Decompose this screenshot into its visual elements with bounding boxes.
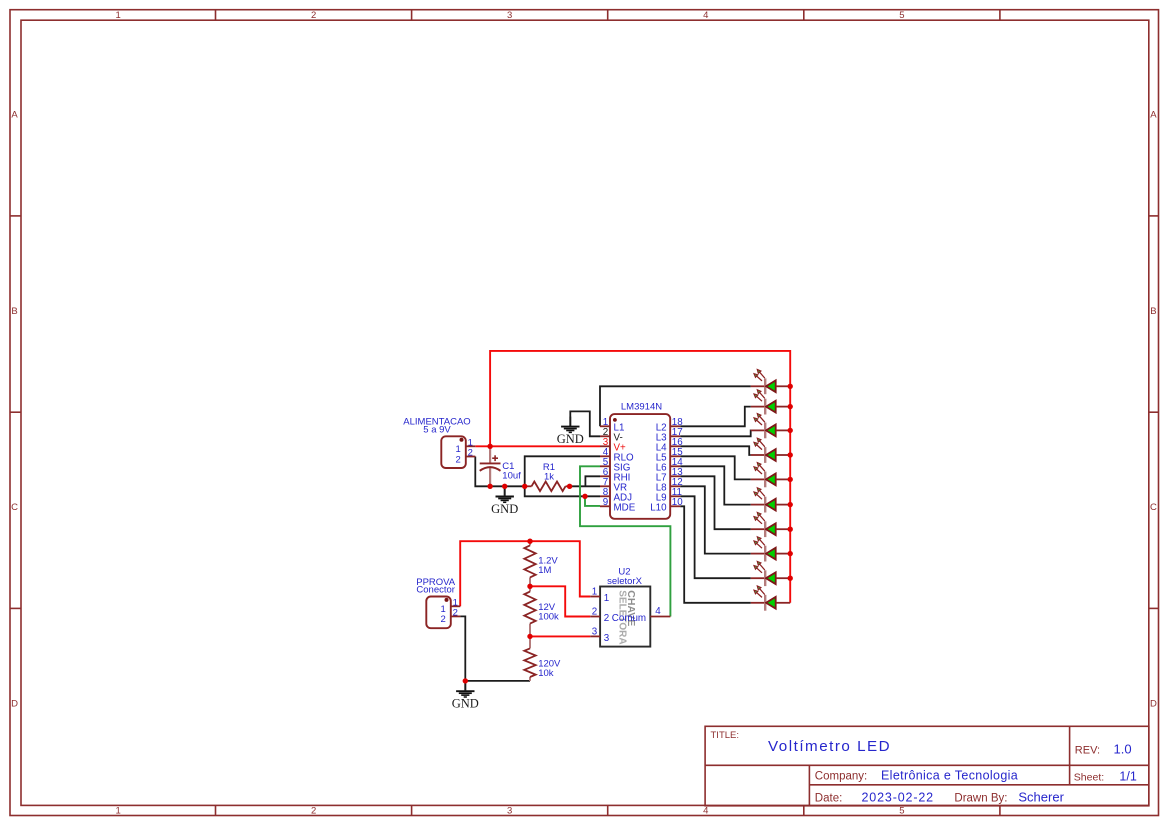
wire L3 pin17 to LED3 (680, 430, 751, 436)
IC U1 pin 5 SIG (600, 457, 630, 473)
svg-text:5 a 9V: 5 a 9V (423, 425, 451, 436)
svg-text:LM3914N: LM3914N (621, 402, 662, 413)
LED5 (751, 463, 790, 488)
IC U1 pin 6 RHI (600, 467, 630, 483)
title block frame (705, 726, 1149, 806)
svg-text:100k: 100k (538, 611, 559, 622)
svg-text:MDE: MDE (614, 503, 636, 514)
IC U1 pin 9 MDE (600, 497, 636, 513)
IC U1 pin 7 VR (600, 477, 627, 493)
junction (463, 678, 468, 683)
svg-text:Comum: Comum (612, 613, 646, 624)
wire V+ riser and top rail to LED bus (490, 351, 790, 603)
svg-text:4: 4 (655, 606, 661, 617)
svg-text:4: 4 (703, 10, 708, 21)
resistor R1 1k (525, 462, 570, 491)
capacitor C1 10uf (480, 446, 521, 486)
svg-text:1: 1 (592, 587, 597, 598)
wire L7 pin13 to LED7 (680, 476, 751, 529)
svg-text:GND: GND (557, 432, 584, 446)
svg-text:1k: 1k (544, 472, 554, 483)
junction (788, 502, 793, 507)
IC U1 LM3914N body (610, 402, 670, 519)
IC U1 pin 1 L1 (600, 417, 624, 433)
svg-text:4: 4 (703, 806, 708, 817)
svg-text:Conector: Conector (416, 585, 455, 596)
wire L5 pin15 to LED5 (680, 456, 751, 479)
svg-text:2: 2 (604, 613, 609, 624)
junction (788, 576, 793, 581)
svg-text:3: 3 (592, 627, 598, 638)
IC U2 pin 2 (590, 607, 609, 624)
wire GND stem from C1 rail (504, 486, 506, 496)
junction (487, 444, 492, 449)
ground GND near IC V- (557, 417, 584, 446)
svg-text:2: 2 (453, 608, 458, 619)
wire V- to GND (570, 411, 600, 436)
svg-text:Eletrônica e Tecnologia: Eletrônica e Tecnologia (881, 768, 1018, 782)
LED8 (751, 537, 790, 562)
junction (487, 484, 492, 489)
IC U1 pin 12 L8 (656, 477, 683, 493)
wire GND net to VR segment (570, 485, 600, 487)
svg-text:10: 10 (672, 497, 683, 508)
svg-text:1.0: 1.0 (1114, 742, 1132, 757)
svg-text:2: 2 (311, 806, 316, 817)
svg-text:3: 3 (507, 806, 512, 817)
IC U1 pin 17 L3 (656, 427, 683, 443)
wire RLO to ADJ loop (525, 456, 600, 496)
junction (788, 404, 793, 409)
svg-text:C: C (1150, 502, 1157, 513)
svg-text:seletorX: seletorX (607, 576, 643, 587)
svg-text:Scherer: Scherer (1018, 789, 1064, 804)
wire L4 pin16 to LED4 (680, 446, 751, 455)
svg-text:GND: GND (491, 502, 518, 516)
svg-text:1: 1 (604, 593, 609, 604)
svg-text:1: 1 (116, 10, 121, 21)
svg-text:GND: GND (452, 697, 479, 711)
IC U1 pin 3 V+ (600, 437, 626, 453)
ground GND near PPROVA (452, 681, 479, 710)
svg-text:1: 1 (116, 806, 121, 817)
svg-text:B: B (11, 306, 17, 317)
svg-text:REV:: REV: (1075, 745, 1100, 757)
IC U2 pin 4 Comum (612, 606, 671, 624)
svg-text:3: 3 (507, 10, 512, 21)
wire divider top red (460, 541, 590, 606)
svg-text:10k: 10k (538, 668, 554, 679)
resistor R4 10k (120V) (524, 636, 561, 681)
wire RHI jog (585, 476, 600, 486)
svg-text:B: B (1150, 306, 1156, 317)
LED6 (751, 488, 790, 513)
svg-text:TITLE:: TITLE: (711, 730, 740, 741)
wire SIG to U2 pin4 green (580, 466, 670, 616)
wire GND net bottom black (475, 457, 524, 487)
svg-text:2: 2 (468, 448, 473, 459)
junction (788, 527, 793, 532)
IC U1 pin 10 L10 (650, 497, 683, 513)
junction (527, 584, 532, 589)
svg-text:A: A (1150, 110, 1157, 121)
svg-text:D: D (1150, 698, 1157, 709)
IC U2 pin 1 (590, 587, 609, 604)
LED4 (751, 438, 790, 463)
IC U1 pin 18 L2 (656, 417, 684, 433)
LED1 (751, 369, 790, 394)
wire GND stem below PPROVA rail (464, 681, 466, 691)
svg-text:Date:: Date: (815, 792, 843, 804)
IC U1 pin 15 L5 (656, 447, 684, 463)
wire PPROVA pin2 to ground rail black (460, 616, 530, 681)
LED3 (751, 414, 790, 439)
wire L2 pin18 to LED2 (680, 407, 751, 427)
wire V+ rail red horizontal (475, 445, 600, 447)
svg-text:Sheet:: Sheet: (1074, 772, 1104, 784)
LED7 (751, 512, 790, 537)
svg-text:2: 2 (311, 10, 316, 21)
wire L10 pin10 to LED10 (680, 506, 751, 603)
svg-text:C: C (11, 502, 18, 513)
svg-text:D: D (11, 698, 18, 709)
connector P2 PPROVA (416, 577, 460, 628)
svg-text:1M: 1M (538, 565, 551, 576)
svg-text:A: A (11, 110, 18, 121)
junction (502, 484, 507, 489)
svg-text:9: 9 (603, 497, 608, 508)
LED9 (751, 561, 790, 586)
svg-text:5: 5 (899, 10, 904, 21)
junction (788, 551, 793, 556)
resistor R2 1M (1.2V) (524, 541, 558, 586)
IC U2 pin 3 (590, 627, 610, 644)
IC U1 pin 11 L9 (656, 487, 682, 503)
junction (527, 634, 532, 639)
wire node C to U2 pin3 red (530, 635, 590, 637)
IC U1 pin 2 V- (600, 427, 623, 443)
svg-text:L10: L10 (650, 503, 667, 514)
wire L1 to LED1 (600, 386, 751, 426)
junction (567, 484, 572, 489)
wire node B to U2 pin2 red (530, 586, 590, 616)
IC U1 pin 4 RLO (600, 447, 634, 463)
wire L8 pin12 to LED8 (680, 486, 751, 553)
junction (788, 384, 793, 389)
junction (522, 484, 527, 489)
junction (788, 428, 793, 433)
IC U1 pin 13 L7 (656, 467, 684, 483)
svg-text:Voltímetro LED: Voltímetro LED (768, 738, 891, 755)
IC U2 seletorX body (600, 566, 650, 646)
svg-text:Drawn By:: Drawn By: (954, 792, 1007, 804)
wire ADJ to MDE green (585, 496, 600, 506)
IC U1 pin 16 L4 (656, 437, 684, 453)
svg-text:Company:: Company: (815, 770, 867, 782)
svg-text:2: 2 (455, 454, 460, 465)
svg-text:10uf: 10uf (502, 470, 521, 481)
ground GND near C1 (491, 487, 518, 516)
resistor R3 100k (12V) (524, 586, 559, 636)
wire L9 pin11 to LED9 (680, 496, 751, 578)
LED2 (751, 390, 790, 415)
LED10 (751, 586, 790, 611)
svg-text:2: 2 (592, 607, 597, 618)
wire L6 pin14 to LED6 (680, 466, 751, 504)
junction (788, 477, 793, 482)
svg-text:3: 3 (604, 633, 610, 644)
IC U1 pin 14 L6 (656, 457, 684, 473)
svg-text:5: 5 (899, 806, 904, 817)
junction (527, 539, 532, 544)
svg-text:2: 2 (440, 614, 445, 625)
junction (582, 494, 587, 499)
IC U1 pin 8 ADJ (600, 487, 632, 503)
connector P1 ALIMENTACAO (403, 417, 475, 468)
svg-text:1/1: 1/1 (1119, 770, 1136, 784)
junction (788, 452, 793, 457)
svg-text:2023-02-22: 2023-02-22 (862, 790, 934, 804)
